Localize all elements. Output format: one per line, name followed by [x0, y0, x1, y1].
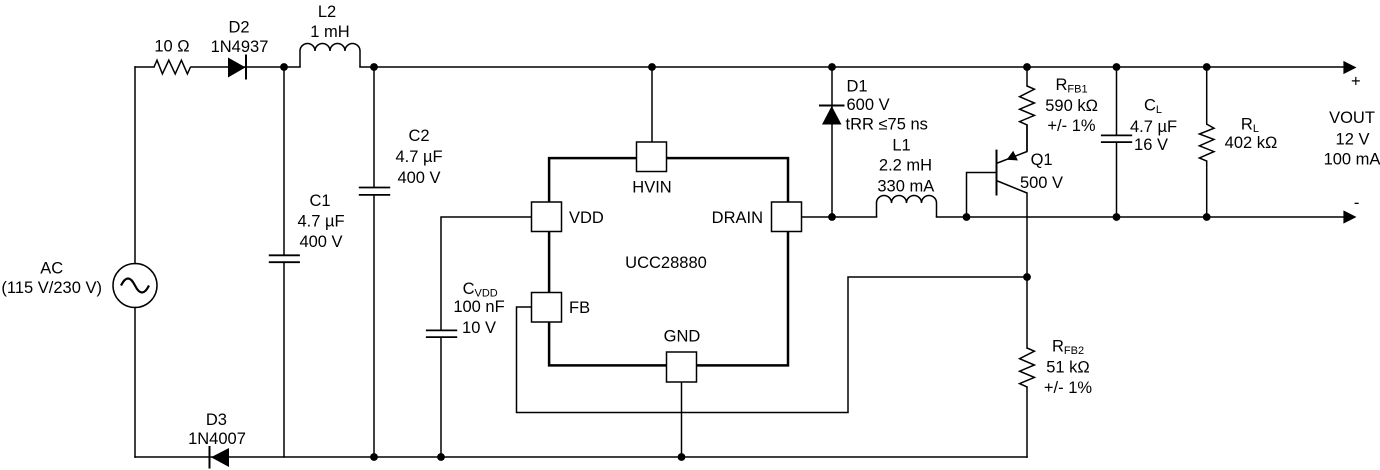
svg-text:1N4937: 1N4937: [211, 38, 269, 56]
wire: feedback network FB pin to divider node: [517, 277, 1028, 413]
node: junction dot C2 bottom: [370, 453, 378, 461]
svg-text:tRR ≤75 ns: tRR ≤75 ns: [846, 116, 928, 134]
wire: Q1 base to mid rail: [967, 173, 997, 218]
svg-text:C2: C2: [408, 127, 429, 145]
svg-text:UCC28880: UCC28880: [625, 254, 707, 272]
svg-text:HVIN: HVIN: [632, 179, 671, 197]
capacitor C1 4.7uF 400V: [269, 192, 345, 262]
node: VOUT- terminal arrow: [1343, 210, 1356, 223]
svg-text:DRAIN: DRAIN: [712, 209, 763, 227]
capacitor CVDD 100nF 10V: [426, 280, 505, 337]
node: junction dot D2/C1/L2: [280, 63, 288, 71]
wire: DRAIN to mid rail: [802, 216, 877, 218]
node: junction dot D1 top: [828, 63, 836, 71]
node: junction dot RFB1 top: [1023, 63, 1031, 71]
svg-text:FB: FB: [569, 299, 590, 317]
svg-text:1 mH: 1 mH: [310, 23, 349, 41]
wire: CL branch vertical: [1116, 67, 1118, 217]
svg-text:400 V: 400 V: [299, 233, 342, 251]
svg-text:GND: GND: [664, 328, 701, 346]
wire: VDD to CVDD branch: [441, 217, 532, 457]
node: junction dot DRAIN/D1: [828, 213, 836, 221]
capacitor C2 4.7uF 400V: [359, 127, 443, 195]
svg-text:-: -: [1354, 194, 1360, 212]
svg-text:12 V: 12 V: [1336, 131, 1370, 149]
wire: C1 branch vertical: [283, 67, 285, 457]
diode D2 1N4937: [211, 19, 269, 80]
resistor RL 402k: [1199, 116, 1277, 162]
wire: Q1 collector vertical to FB node: [1026, 193, 1028, 277]
wire: RFB1 top lead from top rail: [1026, 67, 1028, 86]
wire: top rail from L2 to right arrow: [360, 66, 1344, 68]
node: junction dot FB divider: [1023, 273, 1031, 281]
svg-text:D3: D3: [206, 411, 227, 429]
wire: RL branch top lead: [1206, 67, 1208, 124]
svg-text:+/- 1%: +/- 1%: [1044, 379, 1092, 397]
svg-text:2.2 mH: 2.2 mH: [879, 156, 932, 174]
AC source (115 V/230 V): [1, 260, 157, 308]
inductor L2 1 mH: [300, 3, 360, 67]
wire: D1 branch vertical: [831, 67, 833, 217]
capacitor CL 4.7uF 16V: [1101, 96, 1177, 154]
svg-text:590 kΩ: 590 kΩ: [1045, 97, 1098, 115]
svg-text:L1: L1: [892, 137, 910, 155]
diode D3 1N4007: [188, 411, 246, 469]
svg-text:(115 V/230 V): (115 V/230 V): [1, 279, 102, 297]
wire: AC source bottom to bottom rail: [134, 308, 136, 458]
svg-text:+/- 1%: +/- 1%: [1047, 117, 1095, 135]
wire: top rail left segment to resistor: [135, 66, 154, 68]
node: junction dot GND bottom: [678, 453, 686, 461]
wire: FB node to RFB2: [1026, 277, 1028, 348]
node: junction dot CL mid rail: [1113, 213, 1121, 221]
wire: RFB1 bottom lead to Q1 emitter: [1026, 125, 1028, 152]
svg-text:L2: L2: [318, 3, 336, 21]
svg-text:VDD: VDD: [569, 209, 604, 227]
svg-text:100 nF: 100 nF: [453, 298, 504, 316]
svg-text:D1: D1: [847, 77, 868, 95]
inductor L1 2.2mH 330mA: [877, 137, 937, 218]
wire: bottom rail: [135, 456, 1027, 458]
resistor 10 ohm input: [154, 37, 191, 74]
wire: HVIN branch vertical: [651, 67, 653, 142]
wire: top rail resistor-to-L2 segment (through D2): [191, 66, 300, 68]
svg-text:Q1: Q1: [1031, 151, 1053, 169]
pin DRAIN: [712, 202, 802, 232]
svg-text:402 kΩ: 402 kΩ: [1225, 134, 1278, 152]
svg-text:10 Ω: 10 Ω: [154, 37, 189, 55]
node: junction dot Q1 base / mid rail: [963, 213, 971, 221]
wire: left vertical from top rail to AC source: [134, 67, 136, 264]
svg-text:600 V: 600 V: [847, 96, 890, 114]
resistor RFB2 51k: [1020, 338, 1093, 397]
node: junction dot L2/C2 top: [370, 63, 378, 71]
pin HVIN: [632, 142, 671, 197]
svg-text:330 mA: 330 mA: [877, 177, 934, 195]
transistor Q1 500V: [997, 125, 1064, 196]
svg-text:+: +: [1351, 73, 1361, 91]
svg-text:51 kΩ: 51 kΩ: [1046, 358, 1090, 376]
wire: mid output rail from L1 to right arrow: [937, 216, 1345, 218]
pin GND: [664, 328, 701, 383]
pin VDD: [532, 202, 604, 232]
svg-text:AC: AC: [40, 260, 63, 278]
svg-text:100 mA: 100 mA: [1324, 151, 1380, 169]
resistor RFB1 590k: [1020, 76, 1098, 135]
diode D1 600V: [819, 77, 928, 133]
op IC U1 UCC28880 body: [549, 158, 788, 365]
node: VOUT+ terminal arrow: [1343, 61, 1356, 74]
svg-text:D2: D2: [228, 19, 249, 37]
svg-text:10 V: 10 V: [462, 319, 496, 337]
svg-text:500 V: 500 V: [1020, 174, 1063, 192]
svg-text:1N4007: 1N4007: [188, 430, 246, 448]
label: VOUT 12V 100mA: [1324, 109, 1380, 168]
wire: C2 branch vertical: [373, 67, 375, 457]
svg-text:16 V: 16 V: [1134, 136, 1168, 154]
node: junction dot CL top: [1113, 63, 1121, 71]
wire: GND pin to bottom rail: [681, 382, 683, 457]
svg-text:400 V: 400 V: [397, 169, 440, 187]
wire: RL branch bottom lead: [1206, 161, 1208, 217]
node: junction dot CVDD bottom: [437, 453, 445, 461]
pin FB: [532, 293, 591, 323]
svg-text:4.7 µF: 4.7 µF: [297, 213, 344, 231]
node: junction dot RL top: [1203, 63, 1211, 71]
svg-text:4.7 µF: 4.7 µF: [395, 148, 442, 166]
svg-text:C1: C1: [309, 192, 330, 210]
svg-text:VOUT: VOUT: [1329, 109, 1375, 127]
svg-text:4.7 µF: 4.7 µF: [1130, 118, 1177, 136]
node: junction dot HVIN top: [648, 63, 656, 71]
wire: RFB2 bottom to bottom rail: [1026, 387, 1028, 457]
node: junction dot RL mid rail: [1203, 213, 1211, 221]
